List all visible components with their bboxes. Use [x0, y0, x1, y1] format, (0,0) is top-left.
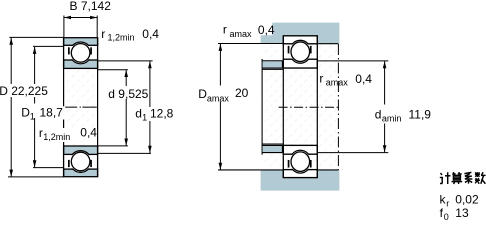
svg-text:d 9,525: d 9,525 [108, 87, 148, 101]
dimension d extension line top [98, 69, 128, 71]
svg-text:0,4: 0,4 [142, 27, 159, 41]
svg-text:amax: amax [207, 93, 230, 103]
label r1,2min 0,4 (bottom) [38, 126, 98, 143]
dimension d_amin line [384, 61, 386, 152]
svg-text:r: r [101, 27, 105, 41]
svg-text:0,4: 0,4 [258, 23, 275, 37]
svg-text:1: 1 [142, 113, 147, 123]
shaft seat line upper [262, 68, 283, 70]
dimension D extension line bottom [8, 176, 64, 178]
dimension D1 arrow down [33, 160, 37, 167]
svg-text:d: d [375, 107, 382, 121]
axis centerline (right figure) [279, 106, 340, 108]
svg-text:0,02: 0,02 [455, 193, 479, 207]
label 0,4 (top left, on housing) [258, 22, 275, 37]
dimension D_amax arrow up [219, 44, 223, 51]
dimension d1 line [149, 61, 151, 153]
svg-text:12,8: 12,8 [150, 107, 174, 121]
dimension D1 arrow up [33, 47, 37, 54]
dimension B extension lines [64, 16, 97, 38]
bearing cross-section lower half (right figure) [283, 145, 317, 177]
dimension D line [10, 38, 12, 177]
left figure bore hatch [65, 69, 97, 146]
dimension D_amax line [219, 44, 221, 170]
svg-text:r: r [223, 23, 227, 37]
svg-text:1,2min: 1,2min [108, 33, 135, 43]
dimension d1 extension line bottom [98, 152, 151, 154]
svg-text:B 7,142: B 7,142 [70, 0, 112, 13]
bore silhouette line right [97, 68, 99, 146]
dimension D_amax arrow down [219, 163, 223, 170]
label r_amax 0,4 (inner) [319, 72, 372, 88]
dimension D1 extension line bottom [33, 167, 64, 169]
label d_amin 11,9 [375, 107, 431, 123]
label d1 12,8 [134, 107, 174, 123]
d_amin extension line bottom [317, 152, 388, 154]
svg-text:amin: amin [382, 114, 402, 124]
housing lower section [261, 170, 340, 191]
svg-text:1: 1 [30, 112, 35, 122]
dimension B line [64, 17, 97, 19]
heading 计算系数 (calculation factors) [440, 172, 486, 184]
svg-text:D 22,225: D 22,225 [0, 84, 48, 98]
dimension d arrow up [124, 70, 128, 77]
dimension d_amin arrow up [383, 61, 387, 68]
factor f_0 13 [440, 206, 469, 222]
svg-text:0,4: 0,4 [80, 126, 97, 140]
housing shoulder surface lines [218, 44, 338, 170]
svg-text:D: D [198, 87, 207, 101]
dimension d_amin arrow down [383, 145, 387, 152]
svg-text:r: r [319, 72, 323, 86]
label D1 18,7 [21, 106, 63, 122]
d_amin extension line top [317, 60, 388, 62]
label r1,2min 0,4 (top) [101, 27, 159, 43]
axis centerline (left figure) [65, 106, 97, 108]
dimension B arrow right [90, 16, 97, 20]
dimension D arrow down [9, 170, 13, 177]
shaft shoulder lower [262, 145, 282, 152]
svg-text:amax: amax [230, 29, 253, 39]
right figure interior hatch [262, 44, 338, 169]
svg-text:amax: amax [326, 78, 349, 88]
svg-text:r: r [446, 198, 449, 208]
label D_amax 20 [198, 86, 248, 103]
housing shoulder extension line left [218, 43, 261, 45]
shaft abutment sleeve face [261, 59, 263, 155]
bearing cross-section upper half (left figure) [64, 38, 98, 69]
shaft shoulder upper [262, 61, 282, 68]
bearing cross-section upper half (right figure) [283, 36, 317, 68]
dimension d arrow down [124, 139, 128, 146]
svg-text:18,7: 18,7 [40, 106, 64, 120]
bore silhouette line left [63, 68, 65, 146]
dimension d line [125, 70, 127, 146]
dimension D extension line top [9, 36, 63, 38]
svg-text:0,4: 0,4 [355, 72, 372, 86]
svg-text:1,2min: 1,2min [43, 132, 70, 142]
dimension D arrow up [9, 38, 13, 45]
dimension d extension line bottom [98, 145, 128, 147]
label r_amax (top left) [223, 23, 252, 39]
bearing cross-section lower half (left figure) [64, 146, 98, 177]
svg-text:D: D [21, 106, 30, 120]
svg-text:13: 13 [455, 206, 469, 220]
dimension d1 extension line top [98, 60, 153, 62]
svg-text:0: 0 [444, 212, 449, 222]
housing upper section [261, 23, 340, 44]
dimension D1 extension line top [33, 45, 64, 47]
factor k_r 0,02 [440, 193, 479, 209]
dimension d1 arrow down [148, 146, 152, 153]
dimension D1 line [34, 47, 36, 168]
svg-text:20: 20 [235, 86, 249, 100]
bore silhouette lines (right figure) [283, 68, 317, 146]
dimension d1 arrow up [148, 61, 152, 68]
housing edge phantom line [337, 44, 339, 170]
dimension B arrow left [64, 16, 71, 20]
svg-text:d: d [135, 107, 142, 121]
shaft seat line lower [262, 143, 283, 145]
svg-text:11,9: 11,9 [409, 107, 432, 121]
